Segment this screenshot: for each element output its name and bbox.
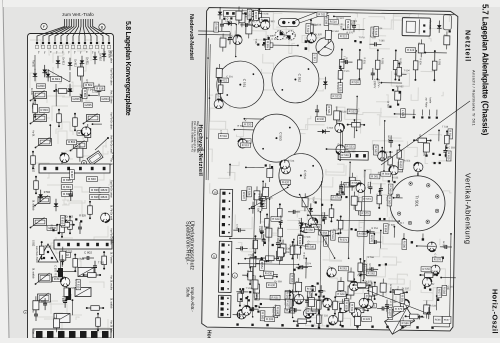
resistor R 528 label — [340, 153, 350, 158]
resistor R 536 — [266, 215, 268, 231]
svg-text:5.8 Lageplan Konvergenzplatte: 5.8 Lageplan Konvergenzplatte — [124, 21, 131, 116]
diode Gr 505 — [300, 218, 302, 230]
resistor R 537 label — [241, 190, 246, 200]
resistor R 610 label — [358, 284, 368, 289]
transistor T 501 — [252, 18, 261, 27]
resistor R 576 label — [432, 257, 442, 262]
resistor R 812 — [65, 284, 67, 301]
resistor R 589 label — [255, 290, 260, 300]
resistor R 510 label — [328, 19, 338, 24]
capacitor C 537 — [280, 216, 282, 221]
potentiometer R 805 — [34, 115, 47, 122]
terminal B — [99, 24, 105, 30]
solder pads — [260, 232, 262, 234]
diode Gr 802 — [55, 199, 57, 211]
resistor R 807 label — [70, 170, 75, 180]
solder pads — [240, 298, 242, 300]
resistor R 813 — [58, 110, 60, 126]
resistor R 597 label — [285, 291, 290, 301]
resistor R 504 label — [265, 40, 270, 50]
resistor R 541 label — [262, 198, 267, 208]
wire segment — [259, 212, 261, 224]
page top margin boundary — [3, 0, 500, 7]
boxed label L 511 — [312, 53, 317, 62]
resistor R 580 label — [402, 239, 407, 249]
pads below Tr 501 — [403, 238, 405, 240]
connector strip S 832 — [54, 240, 112, 249]
resistor R 544 — [260, 275, 276, 277]
tilted component St 501 — [382, 304, 415, 335]
solder pads — [350, 228, 352, 230]
transistor T 514 — [400, 299, 409, 308]
resistor R 532 — [376, 50, 378, 79]
resistor R 629 — [294, 320, 310, 322]
resistor R 531 — [348, 124, 364, 126]
capacitor C 502 — [221, 19, 223, 24]
svg-text:Gr 563: Gr 563 — [66, 216, 74, 219]
capacitor C 807 outline — [33, 301, 39, 310]
wire segment — [361, 304, 370, 306]
resistor R 600 — [289, 295, 291, 311]
wire segment — [244, 118, 263, 120]
resistor R 803 label — [39, 108, 49, 113]
resistor R 581 — [406, 315, 422, 317]
svg-text:R 547: R 547 — [69, 294, 72, 301]
capacitor C 523 outline — [250, 258, 256, 267]
diode Gr 808 label — [47, 226, 57, 231]
resistor R 503 — [258, 9, 260, 25]
resistor R 613 — [414, 139, 430, 141]
solder pads — [52, 229, 54, 231]
resistor R 631 label — [270, 295, 280, 300]
solder pads — [293, 269, 295, 271]
solder pads — [424, 287, 426, 289]
wire segment — [305, 258, 307, 278]
resistor R 551 — [279, 204, 281, 220]
resistor R 550 label — [304, 228, 314, 233]
transistor T 525 — [414, 163, 423, 172]
resistor R 575 label — [360, 211, 370, 216]
resistor R 573 label — [362, 197, 372, 202]
resistor R 594 label — [324, 302, 334, 307]
diode Gr 504 — [317, 130, 329, 132]
resistor R 508 label — [324, 15, 329, 25]
resistor R 608 — [334, 297, 336, 313]
svg-text:Stufe: Stufe — [186, 287, 191, 298]
resistor R 559 label — [340, 185, 345, 195]
resistor R 626 label — [362, 317, 372, 322]
capacitor C 552 — [306, 295, 308, 300]
capacitor C 806 outline — [54, 319, 60, 328]
transistor T 513 — [356, 183, 365, 192]
svg-text:Netzteil: Netzteil — [464, 30, 471, 62]
resistor R 612 — [353, 284, 369, 286]
resistor R 578 label — [421, 267, 431, 272]
svg-text:T 514: T 514 — [45, 245, 52, 248]
resistor R 549 — [389, 152, 391, 170]
board outline Ablenkplatte Chassis — [202, 8, 458, 331]
mains cable entry wires — [198, 30, 230, 33]
transistor T 516 — [303, 309, 312, 318]
resistor R 611 label — [350, 303, 355, 313]
diode Gr 812 — [69, 58, 71, 70]
left edge connector segment 3 — [218, 295, 231, 317]
resistor R 588 — [318, 311, 320, 327]
resistor R 870 — [32, 152, 34, 168]
wire segment — [353, 120, 355, 138]
solder pads — [388, 180, 390, 182]
resistor R 632 — [291, 242, 293, 258]
transistor T 506 — [336, 145, 345, 154]
svg-text:Horiz.-Abl.: Horiz.-Abl. — [206, 330, 212, 338]
coil L 807 box — [78, 268, 94, 277]
capacitor C 524 — [277, 238, 279, 243]
svg-text:R 513: R 513 — [66, 251, 73, 254]
solder pads — [389, 106, 391, 108]
top edge long wire — [249, 11, 454, 26]
top pad tiny pin names — [37, 51, 111, 54]
resistor R 622 — [220, 81, 222, 97]
solder pads — [255, 305, 257, 307]
diode Gr 506 — [310, 203, 312, 215]
resistor R 534 — [250, 260, 266, 262]
capacitor C 554 outline — [296, 282, 302, 291]
capacitor C 511 — [394, 73, 399, 75]
capacitor C 576 — [260, 194, 262, 199]
resistor R 552 — [254, 236, 256, 252]
capacitor C 801 outline — [85, 129, 91, 138]
boxed label R 840 — [87, 177, 98, 182]
resistor R 516 label — [346, 20, 351, 30]
boxed label R 824 — [99, 195, 109, 200]
boxed label R 821 — [51, 77, 62, 82]
svg-text:R 815: R 815 — [77, 281, 81, 289]
capacitor C 565 outline — [354, 317, 360, 326]
resistor R 609 label — [364, 293, 369, 303]
capacitor C 570 outline — [444, 36, 450, 45]
solder pads — [75, 218, 77, 220]
resistor R 601 — [345, 295, 347, 311]
resistor R 543 — [322, 232, 338, 234]
transistor T 503 — [261, 20, 270, 29]
resistor R 532 label — [373, 145, 378, 155]
capacitor C 535 outline — [277, 248, 283, 257]
capacitor C 556 outline — [252, 280, 258, 289]
boxed label R 566 — [433, 316, 442, 323]
bottom edge pads — [36, 331, 43, 338]
resistor R 550 — [398, 145, 400, 163]
capacitor C 528 outline — [294, 245, 300, 254]
resistor R 534 — [414, 51, 416, 80]
resistor R 593 — [239, 289, 241, 305]
solder pads — [314, 219, 316, 221]
resistor R 525 label — [338, 83, 343, 93]
resistor R 539 label — [311, 225, 321, 230]
svg-text:R 590: R 590 — [44, 191, 51, 194]
pads St 511 — [305, 40, 308, 43]
capacitor C 810 outline — [60, 251, 66, 260]
terminal F — [41, 23, 47, 29]
resistor R 801 — [97, 314, 99, 330]
transistor T 508 — [335, 123, 344, 132]
boxed label R 836 — [90, 188, 101, 193]
capacitor C 553 — [252, 114, 301, 163]
svg-text:T 571: T 571 — [69, 287, 76, 290]
resistor R 519 label — [240, 143, 250, 148]
resistor R 603 label — [366, 303, 376, 308]
capacitor C 567 — [444, 145, 446, 150]
resistor R 617 label — [398, 162, 403, 172]
connector number 11 — [211, 254, 216, 259]
diode Gr 503 — [324, 77, 326, 89]
wire cluster top section — [34, 55, 36, 70]
svg-text:R 818: R 818 — [96, 86, 104, 90]
resistor R 514 label — [371, 27, 376, 37]
tilted resistor R 809 — [87, 151, 103, 166]
diode Gr 813 — [57, 56, 59, 68]
wire segment — [360, 275, 362, 284]
resistor R 540 label — [305, 244, 315, 249]
resistor R 570 label — [369, 233, 374, 243]
resistor R 810 label — [60, 216, 65, 226]
capacitor C 515 — [316, 105, 318, 110]
potentiometer R 846 — [38, 294, 51, 302]
solder pads — [439, 154, 441, 156]
resistor R 505 label — [259, 18, 269, 23]
resistor R 583 label — [442, 285, 447, 295]
resistor R 607 label — [387, 307, 392, 317]
wire segment — [327, 148, 349, 150]
boxed label R 567 — [442, 316, 451, 323]
diode Gr 800 with label — [34, 69, 36, 81]
capacitor C 514 — [372, 68, 374, 73]
resistor R 615 label — [446, 151, 451, 161]
left edge connector segment 2 — [219, 241, 232, 292]
capacitor C 802 — [82, 257, 87, 259]
resistor R 624 label — [336, 292, 346, 297]
svg-text:C 576: C 576 — [54, 265, 57, 272]
resistor R 599 label — [265, 317, 275, 322]
connector number 1 — [232, 273, 237, 278]
resistor R 523 label — [331, 94, 341, 99]
left edge connector segment 1 — [219, 189, 232, 236]
transistor T 504 — [307, 33, 316, 42]
resistor R 625 — [318, 297, 320, 313]
capacitor C 549 — [428, 307, 430, 312]
wire segment — [262, 181, 264, 190]
wire fan to Vert-Trafo — [37, 19, 109, 42]
svg-text:Überlastungsschutz: Überlastungsschutz — [189, 221, 196, 270]
boxed label R 826 — [90, 195, 101, 200]
wire segment — [425, 52, 446, 54]
transistor T 510 — [327, 268, 336, 277]
resistor R 571 label — [338, 237, 348, 242]
resistor R 591 label — [273, 308, 278, 318]
wire segment — [300, 266, 312, 268]
resistor R 630 label — [266, 283, 276, 288]
solder pads — [264, 242, 266, 244]
svg-text:R 807: R 807 — [70, 171, 74, 179]
capacitor C 560 outline — [369, 287, 375, 296]
capacitor C 809 outline — [78, 67, 84, 76]
transistor T 802 — [101, 213, 110, 222]
capacitor C 574 — [289, 309, 294, 311]
capacitor C 518 — [242, 274, 247, 276]
capacitor C 801 — [35, 309, 37, 314]
capacitor C 510 — [369, 43, 374, 45]
resistor R 802 label — [84, 83, 94, 88]
resistor R 621 label — [218, 78, 228, 83]
resistor R 604 label — [388, 309, 393, 319]
capacitor C 562 outline — [339, 303, 345, 312]
scan tone veil chassis board — [202, 8, 458, 331]
solder pads — [254, 256, 256, 258]
dual diode oval Gr 501 — [278, 18, 299, 26]
svg-text:R 523: R 523 — [50, 224, 53, 231]
boxed label R 802 — [60, 253, 71, 258]
capacitor C 543 outline — [348, 272, 354, 281]
resistor R 602 — [351, 309, 367, 311]
resistor R 586 label — [400, 321, 410, 326]
long bus wires — [253, 194, 255, 317]
boxed label R 834 — [62, 185, 73, 190]
resistor R 506 label — [214, 22, 219, 32]
solder pads — [425, 154, 427, 156]
resistor R 548 — [330, 205, 332, 221]
capacitor C 533 outline — [266, 228, 272, 237]
resistor R 627 label — [285, 299, 290, 309]
wire segment — [392, 290, 394, 307]
capacitor C 506 — [240, 24, 245, 26]
transistor T 526 — [281, 165, 290, 174]
resistor R 557 label — [344, 182, 354, 187]
resistor R 808 — [61, 220, 63, 237]
solder pads — [223, 18, 225, 20]
resistor R 633 label — [298, 236, 303, 246]
diode Gr 823 — [40, 190, 42, 202]
netz pads row — [413, 116, 415, 118]
capacitor C 512 — [340, 61, 345, 63]
diode Gr 821 — [47, 69, 49, 81]
resistor R 628 label — [344, 301, 349, 311]
transistor T 522 — [328, 315, 337, 324]
capacitor C 815 — [61, 152, 63, 157]
svg-text:B: B — [101, 25, 104, 30]
transistor T 801 — [82, 127, 91, 136]
resistor R 841 — [69, 217, 71, 233]
capacitor C 554 — [279, 153, 324, 198]
boxed label L 508 — [401, 109, 406, 118]
capacitor C 558 — [233, 314, 238, 316]
resistor R 584 label — [400, 294, 405, 304]
capacitor C 508 outline — [325, 30, 331, 39]
leader lines from dual diode — [295, 12, 316, 21]
capacitor C 531 outline — [302, 198, 308, 207]
resistor R 535 label — [261, 197, 266, 207]
boxed label R 832 — [62, 192, 73, 197]
wire segment — [380, 231, 382, 249]
wire segment — [49, 125, 51, 142]
resistor R 596 label — [306, 309, 316, 314]
resistor R 804 label — [67, 140, 77, 145]
resistor R 517 label — [241, 139, 251, 144]
solder pads — [242, 288, 244, 290]
resistor R 816 — [84, 274, 101, 276]
capacitor C 505 outline — [246, 25, 252, 34]
connector number 10 — [212, 190, 217, 195]
capacitor C 805 — [79, 222, 81, 227]
resistor R 554 label — [260, 260, 265, 270]
resistor R 558 label — [383, 224, 388, 234]
resistor R 636 label — [263, 271, 273, 276]
resistor R 502 label — [247, 9, 252, 19]
capacitor C 545 — [369, 182, 371, 187]
resistor R 572 — [339, 216, 341, 232]
solder pads — [340, 196, 342, 198]
transistor T 524 — [364, 299, 373, 308]
connector strip S 831 — [39, 164, 110, 173]
transistor T 515 — [422, 277, 431, 286]
resistor R 574 label — [331, 195, 341, 200]
wire segment — [246, 297, 248, 310]
diode Gr 510 — [412, 316, 424, 318]
capacitor C 812 — [61, 255, 63, 260]
resistor R 569 label — [381, 171, 391, 176]
capacitor C 571 outline — [267, 168, 273, 177]
wire segment — [58, 270, 77, 272]
resistor R 535 — [433, 51, 435, 80]
resistor R 538 label — [247, 187, 252, 197]
resistor R 566 label — [357, 232, 367, 237]
resistor R 848 — [87, 307, 103, 309]
capacitor C 534 — [301, 227, 306, 229]
capacitor C 805 — [44, 298, 46, 303]
top edge solder pads — [36, 42, 38, 44]
capacitor C 507 outline — [220, 38, 226, 47]
capacitor C 546 outline — [351, 196, 357, 205]
resistor R 806 — [54, 90, 71, 92]
capacitor C 804 — [64, 296, 66, 301]
wire segment — [438, 130, 440, 141]
wire segment — [234, 129, 254, 131]
board outline Konvergenzplatte — [28, 34, 114, 343]
capacitor C 516 — [390, 135, 392, 140]
resistor R 635 label — [324, 236, 329, 246]
resistor R 811 — [41, 242, 43, 259]
resistor R 513 label — [338, 34, 348, 39]
diode Gr 804 — [98, 84, 100, 96]
resistor R 556 label — [362, 264, 367, 274]
resistor R 533 label — [345, 144, 355, 149]
capacitor C 522 outline — [254, 191, 260, 200]
transistor node circle — [81, 160, 86, 165]
resistor R 587 label — [307, 288, 312, 298]
solder pads — [308, 314, 310, 316]
resistor R 524 — [339, 67, 341, 83]
right edge dark bars — [441, 256, 444, 259]
potentiometer R 810 — [87, 115, 100, 122]
svg-text:R 810: R 810 — [61, 217, 65, 225]
resistor R 815 label — [76, 280, 81, 290]
resistor R 590 label — [305, 287, 315, 292]
capacitor C 501 outline — [239, 14, 245, 23]
diode Gr 805 — [81, 90, 83, 102]
wire segment — [381, 148, 383, 162]
solder pads — [433, 162, 435, 164]
svg-text:T 532: T 532 — [61, 296, 64, 303]
diode Gr 509 — [394, 291, 406, 293]
top pad labels — [36, 45, 39, 49]
